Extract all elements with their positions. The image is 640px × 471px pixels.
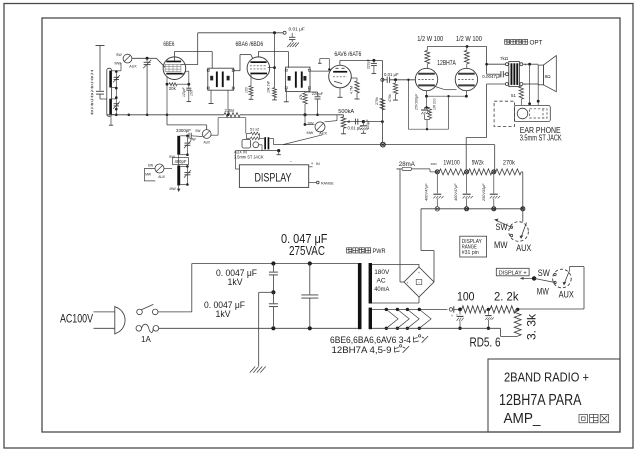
label 0.01uF wiper <box>348 126 363 131</box>
label OPT minus <box>524 82 526 87</box>
wire OPT top left <box>485 63 505 66</box>
wire cap to 100 <box>454 308 462 312</box>
trimmer capacitor ant MW <box>113 102 120 109</box>
tube 6AV6 envelope <box>329 65 352 88</box>
label 6BA6/6BD6 <box>236 41 264 48</box>
label 270k chain <box>503 160 516 166</box>
svg-text:1A: 1A <box>141 335 151 344</box>
title text line3 <box>504 411 542 427</box>
label DISPLAY plus <box>499 270 527 276</box>
label heater pins 2 <box>332 345 410 356</box>
label 100uF audio <box>366 118 370 129</box>
fuse 28mA <box>397 167 437 172</box>
svg-text:400V47μF: 400V47μF <box>454 183 458 201</box>
capacitor cathode 6BE6 <box>186 84 191 101</box>
wire 6BA6 plate to IFT2 <box>258 52 288 68</box>
svg-text:MW: MW <box>145 172 152 176</box>
zener RD5.6 <box>456 309 464 330</box>
svg-text:1W100: 1W100 <box>443 160 460 166</box>
resistor 4.7M <box>351 78 360 99</box>
resistor 1/2W100 b <box>464 47 469 69</box>
label 28mA <box>399 161 416 168</box>
svg-text:+: + <box>415 76 417 80</box>
resistor 270k <box>380 98 385 110</box>
wire 6BE6 osc grid <box>167 115 207 130</box>
node dot wiper <box>362 120 365 123</box>
wire 6AV6 plate down <box>381 60 383 142</box>
svg-text:SW: SW <box>308 122 315 126</box>
wire aux gnd to display <box>235 151 243 169</box>
svg-text:8Ω: 8Ω <box>545 74 552 79</box>
label osc SW band <box>195 129 200 133</box>
svg-text:DISPLAY +: DISPLAY + <box>499 270 527 276</box>
svg-text:~: ~ <box>418 281 420 285</box>
label halfW100 a <box>417 36 443 43</box>
svg-text:1kV: 1kV <box>216 309 231 319</box>
label heater pins 1 <box>330 335 428 346</box>
svg-text:450pF: 450pF <box>175 159 187 164</box>
capacitor 220pF plate <box>371 60 377 73</box>
trimmer cap osc SW <box>184 136 191 156</box>
OPT terminals right <box>520 63 523 86</box>
capacitor 0.047uF <box>301 264 318 329</box>
wire heater top <box>372 308 447 310</box>
selector switch SW display range <box>509 211 529 242</box>
wire grid return left leg <box>407 79 409 130</box>
heater chevron 3 <box>407 309 419 328</box>
IF transformer IFT2 body <box>286 67 310 92</box>
label 3300pF <box>176 128 191 133</box>
label 7kohm <box>500 56 509 61</box>
capacitor 400V47uF b <box>463 174 473 207</box>
svg-text:-: - <box>418 292 419 296</box>
svg-text:IN: IN <box>316 162 320 166</box>
svg-text:220pF: 220pF <box>366 59 370 69</box>
wire AC top rail <box>192 263 358 265</box>
label MW coil <box>170 187 177 191</box>
tube 6BE6 plate bar <box>166 61 181 63</box>
osc coil L3 SW <box>177 136 180 155</box>
earphone jack ring <box>517 108 528 119</box>
wire 6BE6 cathode drop <box>186 71 189 84</box>
capacitor 220pF det <box>315 92 321 116</box>
svg-text:OPT: OPT <box>530 41 543 47</box>
tube 6AV6 electrodes <box>333 68 347 83</box>
label PWR <box>347 248 387 255</box>
junction circle node B <box>465 170 469 174</box>
label 0.01uF top <box>289 27 305 33</box>
wire SW3 right <box>164 168 172 170</box>
label 270k det <box>375 97 379 105</box>
wire coupling <box>382 79 415 81</box>
display range box <box>460 236 487 257</box>
wire display plus <box>309 166 313 168</box>
label 180V AC 40mA <box>374 269 390 293</box>
svg-text:270k: 270k <box>375 97 379 105</box>
label 51 opt <box>511 93 517 98</box>
tube 6BE6 envelope <box>163 57 186 80</box>
wire audio to node C <box>494 145 496 172</box>
wire ferrite bottom tick <box>109 116 113 125</box>
wire cathode down <box>425 96 430 109</box>
capacitor 0.0047uF a <box>269 264 278 295</box>
svg-text:47k: 47k <box>299 94 303 100</box>
IFT2 side marks <box>288 76 307 81</box>
heater dots top <box>385 308 421 311</box>
PWR primary bar <box>358 263 362 329</box>
label 25V100uF <box>415 93 419 111</box>
wire 6BA6 g2 <box>268 33 275 68</box>
svg-text:1W 200: 1W 200 <box>432 98 436 110</box>
label 3.5mm ST JACK <box>520 134 562 143</box>
selector switch SW3 band <box>155 164 164 173</box>
wire grid link tubes <box>435 87 456 90</box>
wire ant coil taps <box>100 71 121 115</box>
label 100 out <box>457 289 475 303</box>
svg-text:MW: MW <box>494 240 508 250</box>
svg-text:RD5. 6: RD5. 6 <box>470 336 501 350</box>
svg-text:AUX: AUX <box>204 141 211 145</box>
label 250V33uF <box>482 183 486 202</box>
junction circle 300V <box>435 170 439 174</box>
svg-text:SW: SW <box>538 268 550 279</box>
svg-text:AUX: AUX <box>129 65 137 69</box>
speaker frame <box>538 65 543 85</box>
svg-text:+: + <box>456 312 458 316</box>
wire SW4 to attenuator <box>518 267 584 309</box>
label RANGE <box>321 181 334 185</box>
title text line1 <box>504 369 589 384</box>
resistor 51 a <box>251 132 260 135</box>
resistor 3.3k <box>514 309 521 336</box>
svg-text:6AV6 /6AT6: 6AV6 /6AT6 <box>334 51 361 58</box>
capacitor aux coupling <box>264 137 269 149</box>
resistor 51 b <box>251 137 260 140</box>
label 5W2k <box>472 160 485 166</box>
wire 6BE6 g3 to AVC <box>181 33 198 65</box>
label DISPLAY <box>255 170 292 184</box>
wire IFT1 sec to 6BA6 grid <box>234 55 253 71</box>
label display minus <box>290 159 292 165</box>
label SW1 AUX <box>129 65 137 69</box>
title text kanji <box>579 414 609 422</box>
svg-text:AUX: AUX <box>158 175 166 179</box>
svg-text:3. 3k: 3. 3k <box>525 313 539 340</box>
border inner frame <box>42 18 620 432</box>
ground AVC cap <box>287 43 299 48</box>
potentiometer 500kA <box>341 115 346 134</box>
svg-text:100: 100 <box>457 289 475 303</box>
node dot 100-2k2 <box>487 308 490 311</box>
label DISPLAY range2 <box>462 245 478 251</box>
label SWrange AUX <box>516 243 531 253</box>
svg-text:0.01 μF: 0.01 μF <box>348 126 363 131</box>
antenna coupling capacitor <box>96 91 104 99</box>
label 400V47uF a <box>425 183 429 201</box>
svg-text:100: 100 <box>245 87 249 93</box>
wire display plus arrow <box>520 277 534 280</box>
svg-text:20k: 20k <box>169 86 177 91</box>
label 500kA <box>338 109 354 115</box>
node dot display plus <box>532 276 536 280</box>
svg-text:AC100V: AC100V <box>60 311 93 325</box>
tube 6BE6 cathode bar <box>166 71 186 74</box>
label 0.0047uF 1kV a <box>216 268 257 287</box>
capacitor 3300pF <box>189 133 202 139</box>
wire AVC line top <box>198 31 283 34</box>
label osc AUX <box>204 141 211 145</box>
wire coil link <box>178 155 180 166</box>
wire osc coil bottom <box>180 154 187 156</box>
selector switch SW2 <box>315 122 325 132</box>
IF transformer IFT1 body <box>208 68 234 90</box>
wire speaker to jack tip <box>528 64 531 105</box>
svg-text:300V: 300V <box>431 162 438 166</box>
capacitor 250V33uF <box>490 174 500 207</box>
svg-text:6BE6: 6BE6 <box>163 41 174 48</box>
aux jack ring <box>253 142 259 148</box>
ant coil L1 SW <box>109 71 111 88</box>
svg-text:6BE6,6BA6,6AV6 3-4: 6BE6,6BA6,6AV6 3-4 <box>330 335 411 345</box>
wire osc coil top <box>180 135 189 138</box>
wire wiper to 270k node <box>363 120 383 123</box>
svg-text:+: + <box>418 271 420 275</box>
resistor 51 opt <box>519 86 523 106</box>
label 2.2k <box>494 289 519 303</box>
capacitor 400V47uF a <box>433 174 443 207</box>
wire osc coil2 bottom <box>180 184 187 186</box>
svg-text:270k: 270k <box>503 160 516 166</box>
label RD5.6 <box>470 336 501 350</box>
OPT winding bars <box>511 63 519 85</box>
label 120pF <box>182 86 186 97</box>
wire display range tap <box>309 181 319 184</box>
svg-text:1kV: 1kV <box>228 277 243 287</box>
IFT2 winding bars <box>295 72 303 88</box>
wire IFT2 pri return <box>284 89 289 102</box>
svg-text:AUX: AUX <box>559 290 574 300</box>
svg-text:+: + <box>311 161 314 166</box>
wire SW3 loop <box>144 169 155 181</box>
label 0.0047uF 1kV b <box>204 300 245 319</box>
earphone jack body <box>515 105 551 121</box>
label 3.5mm ST JACK <box>234 155 264 160</box>
label halfW100 b <box>456 36 482 43</box>
label SW2 SW <box>308 122 315 126</box>
wire ground bus to bridge <box>421 209 434 282</box>
earphone jack plug <box>530 109 548 118</box>
osc coil L4 MW <box>177 166 180 186</box>
speaker horn <box>543 56 556 92</box>
svg-text:SW: SW <box>116 53 122 57</box>
svg-text:SW: SW <box>195 129 200 133</box>
label SWrange MW <box>494 240 508 250</box>
trimmer capacitor ant SW <box>113 75 120 82</box>
svg-text:MW: MW <box>115 61 122 65</box>
AVC bus wire <box>107 114 344 116</box>
title block box <box>488 359 620 432</box>
label 400V47uF b <box>454 183 458 201</box>
resistor 5W2k <box>469 169 493 175</box>
label OPT <box>505 39 543 46</box>
ferrite rod <box>107 68 112 116</box>
trimmer cap osc MW <box>184 166 191 185</box>
svg-text:500kA: 500kA <box>338 109 354 115</box>
wire 6AV6 cathode <box>338 88 343 97</box>
svg-text:MW: MW <box>170 187 177 191</box>
label SW1 SW <box>116 53 122 57</box>
selector switch SW osc <box>202 130 211 139</box>
resistor 100 6BA6 cathode <box>249 75 254 100</box>
svg-text:4.7M: 4.7M <box>350 86 354 94</box>
node dots ferrite <box>115 70 130 116</box>
junction circles ground bus <box>435 207 525 211</box>
tuning capacitor C1a <box>143 58 151 116</box>
label 1W100 <box>443 160 460 166</box>
svg-text:180V: 180V <box>374 269 390 276</box>
label SW4 SW <box>538 268 550 279</box>
svg-text:28mA: 28mA <box>399 161 416 168</box>
tube 6BA6 envelope <box>247 57 270 80</box>
svg-text:3300pF: 3300pF <box>176 128 191 133</box>
wire speaker to jack ring <box>537 85 540 106</box>
capacitor 0.0047uF b <box>269 292 278 328</box>
PWR secondary heater bar <box>369 308 372 330</box>
display plus box <box>496 268 529 276</box>
wire aux signal to audio line <box>269 138 273 144</box>
wire OPT sec bottom <box>523 83 538 85</box>
capacitor coupling out <box>447 306 453 318</box>
label SW1 MW <box>115 61 122 65</box>
IFT2 terminal squares <box>285 69 310 89</box>
connector junction audio <box>381 142 386 147</box>
svg-text:AC: AC <box>377 278 386 285</box>
resistor 270k chain <box>496 169 522 175</box>
wire 28mA to bridge <box>397 169 405 282</box>
svg-text:51 x2: 51 x2 <box>250 127 259 131</box>
tube 12BH7A unit2 <box>455 68 477 90</box>
svg-text:SW: SW <box>496 222 508 233</box>
wire B+ amp <box>427 45 486 48</box>
heater chevron 1 <box>386 309 398 328</box>
aux jack body <box>242 139 251 148</box>
capacitor 100uF audio <box>360 122 369 134</box>
svg-text:250V33μF: 250V33μF <box>482 183 486 202</box>
node dot 2k2 right <box>516 308 519 311</box>
svg-text:0.0047μF: 0.0047μF <box>482 74 501 79</box>
label 275VAC <box>289 244 325 258</box>
svg-text:12BH7A: 12BH7A <box>437 60 456 67</box>
label EAR PHONE <box>520 126 561 135</box>
svg-text:100μF: 100μF <box>366 118 370 129</box>
svg-text:275VAC: 275VAC <box>289 244 325 258</box>
label 6AV6/6AT6 <box>334 51 361 58</box>
svg-text:+: + <box>451 314 453 318</box>
earphone dashed box <box>494 101 514 126</box>
wire 6AV6 grid cap stub <box>318 59 330 71</box>
label 470k grid <box>388 94 392 102</box>
label SW4 MW <box>537 286 549 296</box>
svg-text:AUX: AUX <box>319 132 327 136</box>
wire AC bottom rail <box>159 327 358 329</box>
wire aux top loop <box>247 134 251 140</box>
wire 20k to bus <box>166 84 169 116</box>
wire SW1 to 6BE6 grid <box>132 57 165 68</box>
wire OPT sec top <box>523 63 538 66</box>
svg-text:3.5mm ST JACK: 3.5mm ST JACK <box>234 155 264 160</box>
svg-text:1/2 W 100: 1/2 W 100 <box>417 36 443 43</box>
resistor 47k <box>303 93 307 116</box>
wire AC input lines <box>94 312 115 328</box>
svg-text:120pF: 120pF <box>182 86 186 97</box>
wire IFT1 sec return to AVC <box>227 90 230 116</box>
title text line2 <box>499 392 582 409</box>
resistor 20k 6BE6 <box>166 77 191 86</box>
selector switch SW4 <box>553 269 572 288</box>
svg-text:0.01 μF: 0.01 μF <box>289 27 305 33</box>
heater chevron 4 <box>419 309 431 328</box>
capacitor 0.01uF wiper <box>355 119 357 125</box>
wire IFT1 pri return <box>209 90 214 103</box>
resistor 100 out <box>462 306 487 313</box>
svg-text:12BH7A 4,5-9: 12BH7A 4,5-9 <box>332 345 392 355</box>
label 3.3k <box>525 313 539 340</box>
label SW3 MW <box>145 172 152 176</box>
IFT1 side marks <box>210 76 229 81</box>
label 100 cathode <box>245 87 249 93</box>
label OPT plus <box>524 62 527 67</box>
capacitor 25V100uF cathode <box>421 108 430 120</box>
wire cathode RC bottom <box>425 120 430 131</box>
label 8ohm <box>545 74 552 79</box>
terminal AVC <box>283 31 286 34</box>
svg-text:SW: SW <box>148 164 154 168</box>
tube1 electrodes <box>415 74 435 86</box>
IFT1 winding bars <box>216 72 224 88</box>
resistor 1/2W100 a <box>425 47 430 69</box>
svg-text:25V100μF: 25V100μF <box>415 93 419 111</box>
box 450pF <box>173 158 189 165</box>
wire bottom return <box>372 328 518 336</box>
capacitor 0.01uF coupling <box>387 77 389 83</box>
svg-text:PWR: PWR <box>373 249 387 255</box>
wire switch to rail <box>158 264 192 312</box>
wire OPT bottom left <box>466 84 505 170</box>
label 0.047uF <box>281 232 328 246</box>
label DISPLAY range3 <box>462 250 479 256</box>
svg-text:AMP_: AMP_ <box>504 411 542 427</box>
wire chain right down <box>521 172 523 209</box>
svg-text:51: 51 <box>511 93 517 98</box>
wire cathode loop right leg <box>447 95 449 129</box>
svg-text:MW: MW <box>537 286 549 296</box>
capacitor 0.0047uF OPT <box>501 71 506 77</box>
wire aux zig join <box>260 134 265 139</box>
wire SW range contacts <box>494 219 513 237</box>
node dot grid <box>394 78 397 81</box>
junction circle det <box>381 78 384 81</box>
label SW4 AUX <box>559 290 574 300</box>
heater dots bottom <box>385 327 421 330</box>
label 0.01uF coupling <box>384 72 399 77</box>
tube 6BA6 electrodes <box>250 61 267 74</box>
resistor 200 cathode <box>428 108 432 120</box>
wire bus to SW2 <box>304 115 315 126</box>
wire SW4 contacts <box>534 273 556 283</box>
label 220pF det <box>312 91 324 96</box>
svg-text:7kΩ: 7kΩ <box>500 56 509 61</box>
svg-text:0.01 μF: 0.01 μF <box>384 72 399 77</box>
